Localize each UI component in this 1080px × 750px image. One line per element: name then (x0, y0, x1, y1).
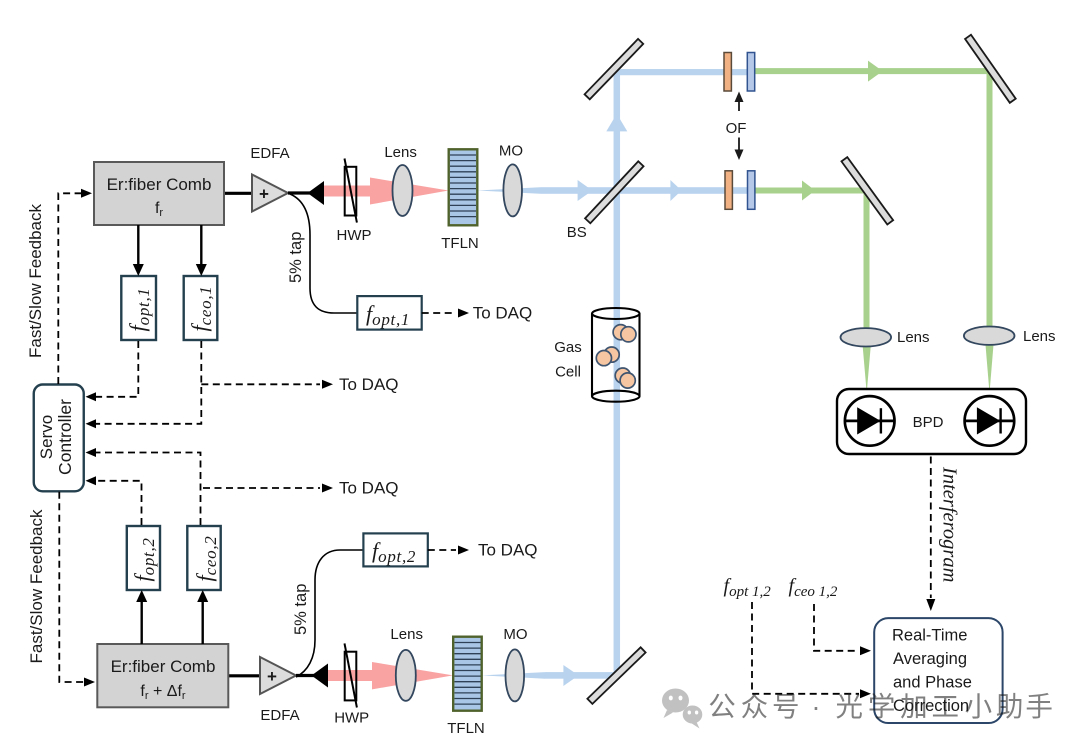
svg-text:小: 小 (965, 691, 993, 722)
svg-text:Real-Time: Real-Time (892, 627, 967, 645)
svg-text:Lens: Lens (1023, 328, 1056, 345)
svg-text:fopt 1,2: fopt 1,2 (724, 575, 772, 600)
svg-text:Fast/Slow Feedback: Fast/Slow Feedback (27, 509, 46, 664)
svg-text:OF: OF (726, 120, 747, 137)
svg-text:Gas: Gas (554, 339, 582, 356)
svg-text:TFLN: TFLN (441, 235, 479, 252)
svg-text:5% tap: 5% tap (287, 232, 305, 283)
svg-text:众: 众 (741, 691, 769, 722)
svg-text:Cell: Cell (555, 364, 581, 381)
svg-text:Lens: Lens (384, 144, 417, 161)
svg-text:+: + (259, 185, 269, 204)
svg-text:HWP: HWP (337, 227, 372, 244)
svg-text:EDFA: EDFA (250, 145, 289, 162)
svg-text:Lens: Lens (390, 626, 423, 643)
svg-text:+: + (267, 667, 277, 686)
svg-text:工: 工 (931, 691, 959, 722)
svg-text:光: 光 (836, 691, 864, 722)
svg-text:To DAQ: To DAQ (478, 541, 538, 560)
svg-text:·: · (811, 691, 820, 722)
svg-text:Servo: Servo (37, 415, 56, 459)
svg-text:手: 手 (1025, 691, 1053, 722)
svg-text:HWP: HWP (334, 710, 369, 727)
svg-text:MO: MO (503, 626, 527, 643)
svg-text:Averaging: Averaging (893, 650, 967, 668)
svg-text:EDFA: EDFA (260, 707, 299, 724)
svg-text:Er:fiber Comb: Er:fiber Comb (111, 657, 216, 676)
svg-text:and Phase: and Phase (893, 674, 972, 692)
svg-text:Interferogram: Interferogram (939, 466, 961, 582)
svg-text:公: 公 (708, 691, 736, 722)
svg-text:Er:fiber Comb: Er:fiber Comb (107, 175, 212, 194)
svg-text:Fast/Slow Feedback: Fast/Slow Feedback (26, 203, 45, 358)
svg-text:BPD: BPD (913, 414, 944, 431)
svg-text:BS: BS (567, 224, 587, 241)
svg-text:To DAQ: To DAQ (473, 304, 533, 323)
svg-text:Lens: Lens (897, 329, 930, 346)
svg-text:助: 助 (996, 691, 1024, 722)
svg-text:5% tap: 5% tap (292, 584, 310, 635)
svg-text:加: 加 (900, 691, 928, 722)
svg-text:To DAQ: To DAQ (339, 375, 399, 394)
svg-text:学: 学 (868, 691, 896, 722)
svg-text:Controller: Controller (55, 399, 75, 475)
svg-text:fceo 1,2: fceo 1,2 (789, 575, 838, 600)
svg-text:号: 号 (772, 691, 800, 722)
svg-text:TFLN: TFLN (447, 720, 485, 737)
svg-text:To DAQ: To DAQ (339, 479, 399, 498)
svg-text:MO: MO (499, 143, 523, 160)
